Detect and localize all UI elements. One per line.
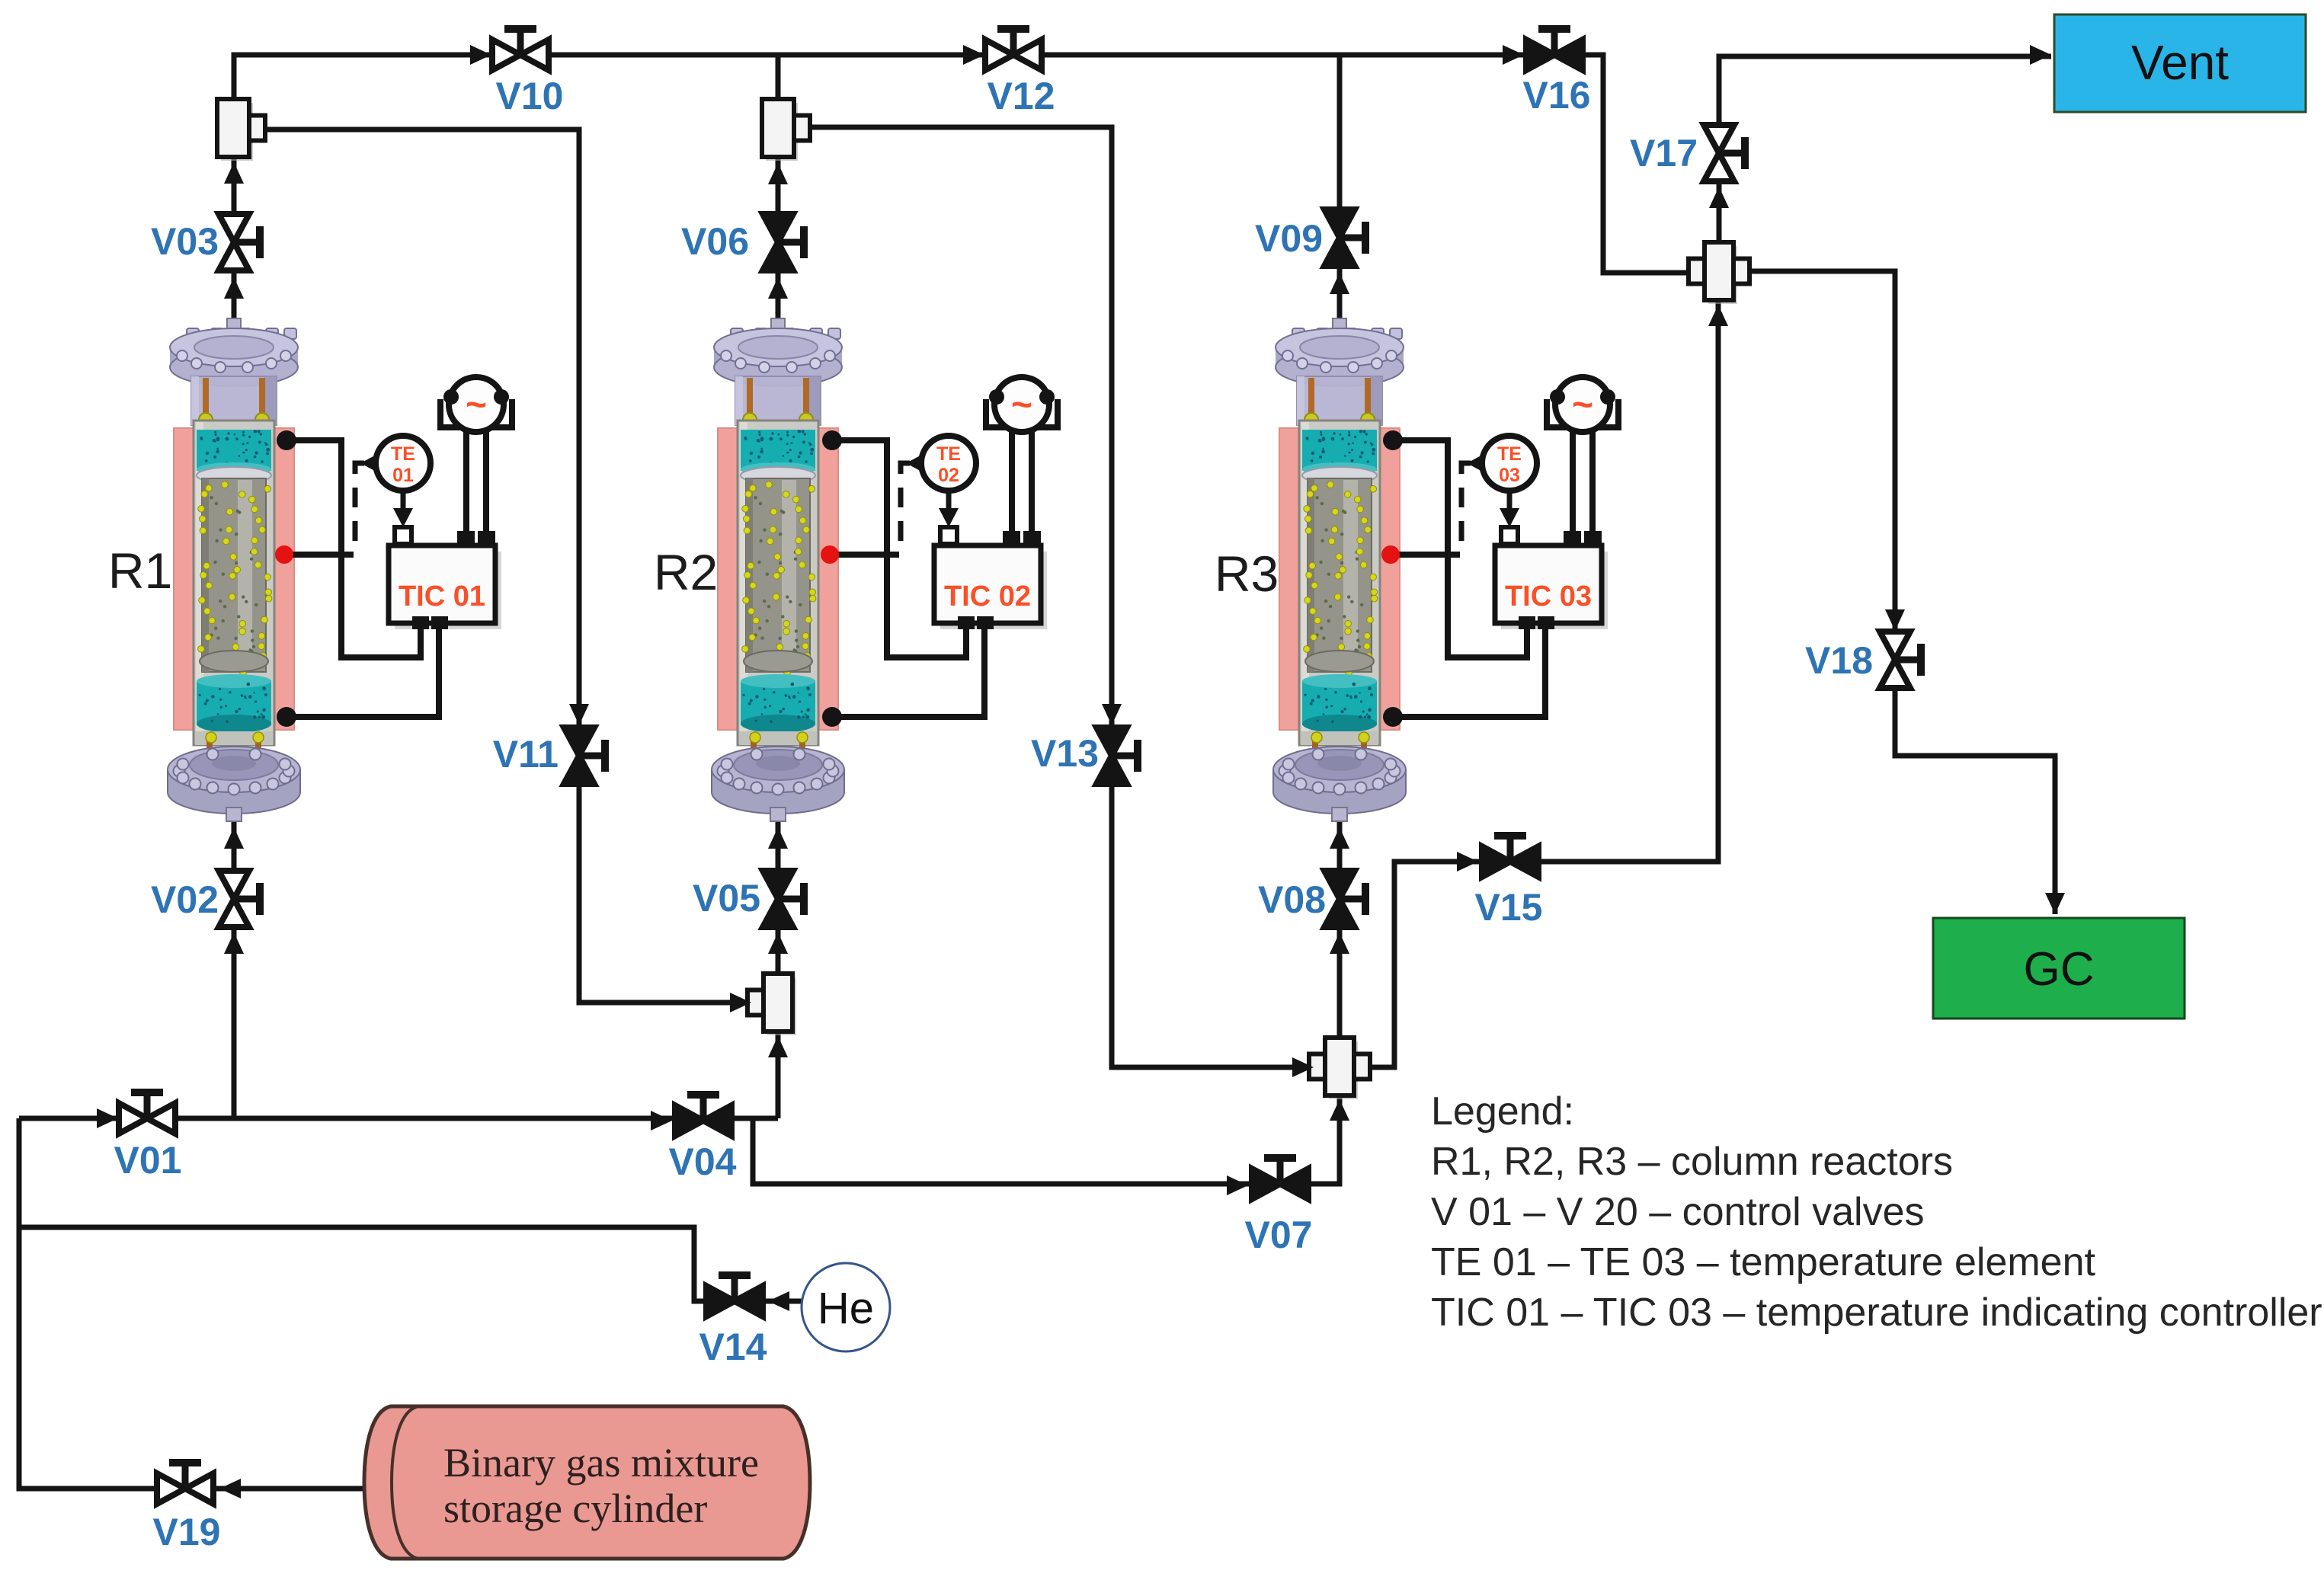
svg-text:V06: V06 (681, 220, 749, 263)
svg-text:R3: R3 (1215, 545, 1279, 602)
svg-text:~: ~ (1011, 385, 1032, 425)
svg-text:R1: R1 (108, 542, 172, 599)
svg-text:03: 03 (1499, 465, 1520, 486)
svg-text:V16: V16 (1523, 74, 1591, 117)
svg-text:V02: V02 (151, 878, 219, 921)
svg-text:V04: V04 (669, 1140, 737, 1183)
svg-text:V05: V05 (693, 877, 760, 920)
svg-text:TIC 02: TIC 02 (944, 581, 1031, 612)
svg-text:V19: V19 (153, 1511, 221, 1553)
svg-text:TE: TE (936, 443, 961, 465)
svg-text:V07: V07 (1245, 1214, 1313, 1256)
svg-text:V09: V09 (1255, 217, 1323, 260)
svg-text:01: 01 (392, 465, 414, 486)
svg-text:TE: TE (1497, 443, 1522, 465)
svg-text:Legend:: Legend: (1431, 1089, 1574, 1134)
svg-text:TE 01 – TE 03 – temperature el: TE 01 – TE 03 – temperature element (1431, 1240, 2096, 1284)
svg-text:~: ~ (466, 385, 487, 425)
svg-text:V11: V11 (493, 733, 559, 776)
svg-text:V01: V01 (114, 1139, 182, 1182)
svg-text:V17: V17 (1630, 132, 1698, 174)
svg-text:Binary gas mixture: Binary gas mixture (443, 1440, 759, 1486)
svg-text:V10: V10 (496, 75, 564, 117)
svg-text:storage cylinder: storage cylinder (443, 1486, 707, 1531)
svg-text:TE: TE (391, 443, 415, 465)
svg-text:V14: V14 (699, 1326, 767, 1368)
svg-text:GC: GC (2024, 943, 2095, 996)
svg-text:V15: V15 (1475, 886, 1543, 929)
svg-text:TIC 01: TIC 01 (399, 581, 485, 612)
svg-text:V13: V13 (1031, 732, 1099, 775)
svg-text:V 01 – V 20 – control valves: V 01 – V 20 – control valves (1431, 1190, 1925, 1234)
svg-text:TIC 03: TIC 03 (1505, 581, 1592, 612)
svg-text:V03: V03 (151, 220, 219, 263)
svg-text:Vent: Vent (2131, 35, 2229, 90)
svg-text:V18: V18 (1805, 639, 1873, 682)
svg-text:V12: V12 (988, 75, 1055, 117)
svg-text:02: 02 (938, 465, 959, 486)
svg-text:He: He (818, 1284, 874, 1333)
svg-text:V08: V08 (1258, 878, 1326, 921)
svg-text:R2: R2 (654, 544, 718, 600)
svg-text:TIC 01 – TIC 03 – temperature: TIC 01 – TIC 03 – temperature indicating… (1431, 1291, 2322, 1335)
svg-text:R1, R2, R3 – column reactors: R1, R2, R3 – column reactors (1431, 1140, 1953, 1184)
svg-text:~: ~ (1572, 385, 1593, 425)
